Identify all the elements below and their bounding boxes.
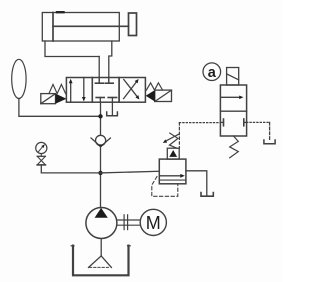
V1 right spring [146,83,162,90]
valve a divider [220,110,246,112]
wire check valve to pump [100,147,102,208]
cylinder barrel [42,13,119,42]
shutoff valve (hourglass) [37,155,45,157]
motor M [140,209,166,235]
pressure gauge [36,142,47,153]
valve V1 body middle box [92,78,119,103]
valve a flow arrow [221,96,241,98]
valve a blocked port right [244,121,247,123]
wire A pipe down to valve [98,57,100,84]
V1 left spring [49,84,66,93]
wire P port down [100,102,102,135]
V1 middle box blocked port P [99,98,101,103]
valve V1 body left box [66,78,92,103]
relief valve adjust arrow [166,134,179,141]
relief valve internal lower line [159,179,186,181]
dark mark on cylinder top edge [57,11,64,13]
junction main pressure line [98,171,102,175]
valve a label circle [203,63,221,81]
strainer [89,256,102,268]
V1 middle box blocked port A [98,78,100,84]
relief valve pilot box [167,148,179,159]
V1 right solenoid box [155,90,172,101]
relief valve spring [169,133,178,148]
tank at valve a drain [264,140,275,144]
relief valve outlet wire [186,171,207,196]
wire cylinder left port down [45,41,99,57]
wire cylinder right port down with jog [109,41,112,83]
reservoir tank [73,246,129,276]
valve V1 body right box [119,78,145,103]
wire main line to relief valve [101,171,160,173]
cylinder rod [53,25,129,27]
valve a blocked port left [220,121,223,123]
drain tank under valve [107,112,118,116]
relief valve body [159,159,186,184]
V1 left box down arrow [83,78,85,98]
valve a drain dashed [247,121,270,123]
pilot line dashed horizontal to valve a [179,122,220,124]
pilot line dashed vertical [178,123,180,148]
valve a solenoid box [227,68,239,86]
svg-text:a: a [208,65,217,81]
accumulator [12,59,26,98]
V1 right box cross arrow 2 [124,80,138,97]
V1 middle box blocked port B [108,78,110,84]
tank under relief outlet [201,193,213,197]
V1 left solenoid box [41,94,56,104]
check valve [96,135,106,145]
pump [86,208,117,239]
coupling shaft [117,219,140,221]
V1 left solenoid triangle [56,94,67,104]
wire gauge to main line [41,165,100,173]
suction wire pump to strainer [100,239,102,256]
V1 right solenoid triangle [146,90,155,101]
V1 middle box blocked port T [111,98,113,103]
junction accumulator line [98,114,102,118]
relief valve drain dashed [152,177,178,197]
svg-text:M: M [146,213,161,233]
relief valve internal arrow [161,175,182,177]
cylinder end plate [129,13,137,36]
cylinder piston [52,13,54,42]
V1 left box up arrow [70,82,72,102]
valve a spring [230,136,239,158]
wire accumulator to pump line [19,99,101,117]
wire T port down [111,102,113,115]
V1 right box cross arrow 1 [124,82,137,99]
gauge stem [40,154,42,157]
valve a body [220,85,246,136]
